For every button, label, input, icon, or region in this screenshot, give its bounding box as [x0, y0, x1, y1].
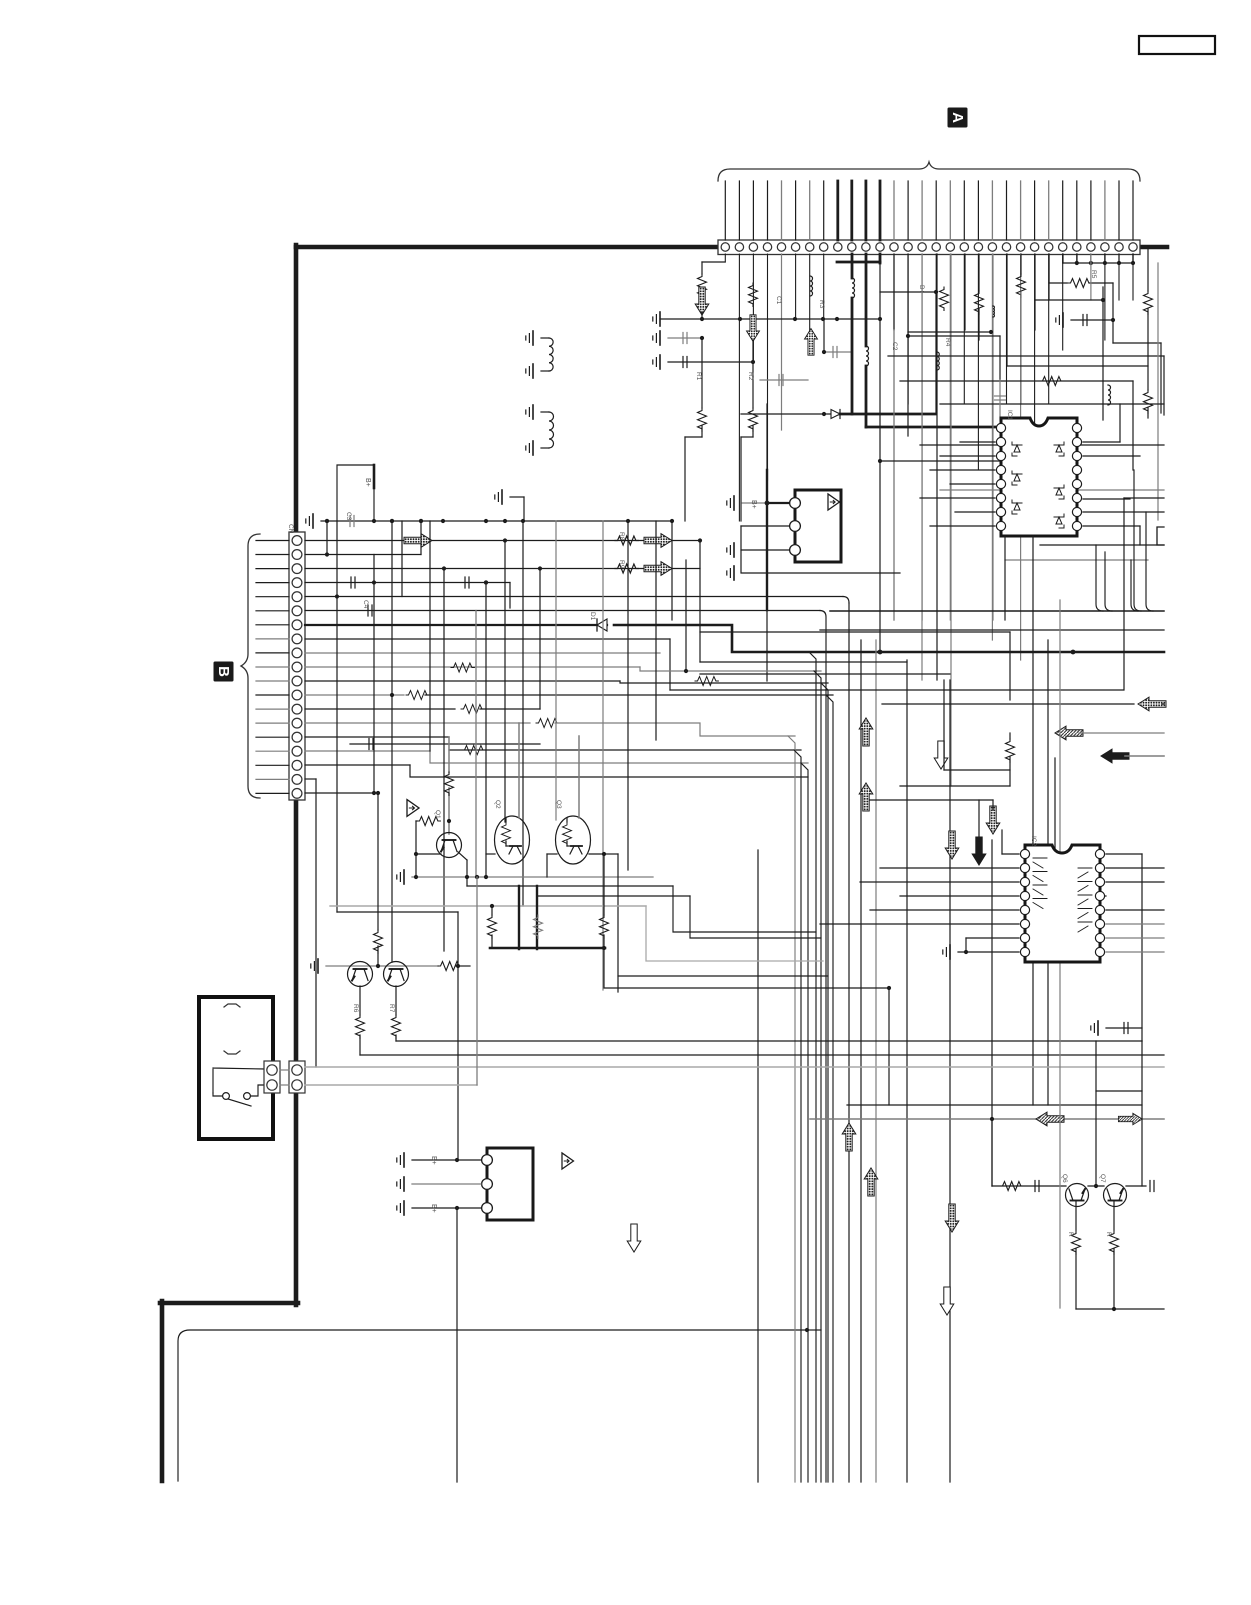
wire B4 cap row: [305, 582, 510, 584]
U4 pin2: [482, 1179, 493, 1190]
arrow feed a3: [747, 315, 760, 342]
wire U2 p7: [966, 937, 1019, 939]
wire CN-A pin 8 top: [823, 181, 825, 240]
wire U1 r2: [1083, 455, 1140, 457]
svg-text:Q1: Q1: [434, 810, 441, 819]
connector CN-B pin 9: [292, 648, 302, 658]
resistor R-tie: [1068, 279, 1091, 288]
wire CN-A pin 16 top: [935, 181, 937, 240]
U3 pin 3: [790, 545, 801, 556]
switch SW1 wire: [213, 1068, 266, 1093]
wire x1096: [1096, 545, 1103, 611]
transistor Q1: [437, 833, 462, 858]
deck arc bottom: [224, 1051, 240, 1054]
resistor R-u2a: [1006, 739, 1015, 762]
arrow B1a: [404, 534, 432, 548]
junction: [441, 519, 445, 523]
bus y445: [920, 444, 1164, 446]
ground G-tie: [1062, 313, 1064, 327]
wire B19 row: [305, 792, 374, 794]
wire CN-A pin 24 column: [1048, 254, 1050, 404]
wire q1 base: [416, 853, 441, 855]
wire CN-B pin 14 stub: [256, 722, 289, 724]
junction: [419, 519, 423, 523]
U1 left pin 3: [996, 451, 1005, 460]
wire col 672: [671, 521, 673, 620]
wire CN-A pin 22 top: [1020, 181, 1022, 240]
deck arc top: [224, 1004, 240, 1007]
wire q3 base stub: [547, 853, 557, 855]
junction: [698, 538, 702, 542]
U2 coil symbol R2: [1078, 882, 1092, 892]
connector CN-B pin 3: [292, 564, 302, 574]
wire col 951: [950, 254, 952, 786]
resistor R-t3: [1110, 1231, 1119, 1254]
U2 right pin 15: [1095, 863, 1104, 872]
U2 coil symbol L2: [1033, 872, 1047, 882]
wire col 540: [539, 569, 541, 710]
IC U2 body: [1025, 845, 1100, 962]
wire U2 p3: [860, 881, 1019, 883]
wire B5 corner: [843, 597, 849, 604]
transistor Q6: [1066, 1184, 1089, 1207]
wire x880 thin: [879, 263, 881, 652]
wire CN-A pin 27 drop: [1090, 254, 1092, 263]
svg-text:B+: B+: [430, 1204, 437, 1213]
wire CN-A pin 18 column: [963, 254, 965, 404]
connector CN-B pin 11: [292, 676, 302, 686]
wire CN-A pin 2 top: [738, 181, 740, 240]
wire CN-A pin 28 column: [1104, 254, 1106, 340]
wire x876: [875, 640, 877, 1482]
transistor Q5: [384, 962, 409, 987]
resistor R-B14: [461, 705, 484, 714]
svg-text:B: B: [215, 666, 232, 677]
diode D2: [831, 410, 840, 419]
U1 internal diode 5: [1056, 488, 1062, 495]
arrow right y1119: [1118, 1113, 1142, 1125]
wire CN-A pin 29 drop: [1118, 254, 1120, 263]
U1 left pin 7: [996, 507, 1005, 516]
U2 left pin 1: [1020, 849, 1029, 858]
wire CN-B pin 12 stub: [256, 694, 289, 696]
wire CN-A pin 17 column: [949, 254, 951, 620]
thick row y414: [838, 413, 936, 416]
junction: [990, 1117, 994, 1121]
arrow left 1: [1138, 697, 1166, 711]
arrow left y1119: [1036, 1112, 1064, 1126]
wire col 979: [978, 254, 980, 291]
U1 left pin 1: [996, 423, 1005, 432]
svg-text:IC2: IC2: [1030, 836, 1037, 847]
wire B18 down: [305, 778, 316, 780]
bus y886: [467, 885, 673, 887]
wire U1 pin2: [960, 441, 995, 443]
svg-text:R8: R8: [618, 532, 625, 541]
wire B10 row: [305, 666, 640, 668]
thick diode bus: [614, 625, 1164, 652]
connector blk2: [289, 1061, 305, 1093]
svg-text:C3: C3: [345, 512, 352, 521]
U2 left pin 2: [1020, 863, 1029, 872]
junction: [821, 317, 825, 321]
wire q2 base stub: [486, 853, 495, 855]
svg-text:R5: R5: [1090, 270, 1097, 279]
wire B+ loop y292: [880, 291, 936, 293]
U2 right pin 10: [1095, 933, 1104, 942]
bus y332: [908, 331, 991, 333]
connector CN-A pin 30: [1129, 243, 1137, 251]
wire CN-A pin 6 column: [795, 254, 797, 319]
wire x457 lower: [456, 1208, 458, 1482]
resistor R-x378: [374, 930, 383, 953]
svg-text:B+: B+: [364, 478, 371, 487]
svg-text:Q2: Q2: [494, 800, 501, 809]
wire q5 low: [395, 1035, 397, 1041]
connector CN-B pin 2: [292, 550, 302, 560]
wire CN-A pin 22 column: [1020, 254, 1022, 660]
wire a1: [701, 312, 703, 319]
wire CN-A pin 28 top: [1104, 181, 1106, 240]
wire CN-A pin 19 column: [977, 254, 979, 470]
resistor R-q1b: [445, 772, 454, 795]
inductor L-col993: [993, 306, 994, 317]
arrow B3b: [644, 562, 672, 576]
connector CN-B pin 7: [292, 620, 302, 630]
wire x686: [685, 560, 687, 671]
wire x950: [949, 680, 951, 1482]
connector CN-A pin 26: [1073, 243, 1081, 251]
ground G-u4c: [403, 1201, 405, 1215]
wire U2 r p14: [1106, 881, 1164, 883]
wire CN-B pin 10 stub: [256, 666, 289, 668]
arrow down 6: [940, 1287, 954, 1315]
wire CN-A pin 25 column: [1062, 254, 1064, 350]
wire col 1007: [1006, 254, 1008, 366]
U1 left pin 8: [996, 521, 1005, 530]
wire col 402: [401, 521, 403, 597]
wire CN-A pin 7 column: [809, 254, 811, 352]
wire U1 r1: [1083, 441, 1120, 443]
svg-text:Q6: Q6: [1061, 1174, 1068, 1183]
wire x1033: [1032, 536, 1034, 1105]
fan L y932: [673, 886, 816, 932]
wire CN-A pin 9 top: [836, 181, 839, 240]
wire x1123: [1123, 498, 1125, 690]
wire col 1105: [1104, 254, 1106, 263]
wire U1 pin4: [930, 469, 995, 471]
connector CN-B pin 16: [292, 746, 302, 756]
resistor R-b3: [1017, 274, 1026, 297]
connector CN-B body: [289, 532, 305, 800]
connector CN-A pin 18: [960, 243, 968, 251]
resistor R-b1: [940, 287, 949, 310]
wire CN-B pin 9 stub: [256, 652, 289, 654]
wire CN-B pin 3 stub: [256, 568, 289, 570]
row y912: [337, 911, 458, 913]
wire x936: [935, 292, 937, 413]
wire x1005: [1004, 536, 1006, 620]
wire tie feed2: [1089, 282, 1113, 284]
switch SW1 left lead: [213, 1093, 222, 1096]
connector CN-A pin 25: [1059, 243, 1067, 251]
wire CN-A pin 2 column: [738, 254, 740, 521]
ground G-u3b: [733, 543, 735, 557]
cap c-b2: [999, 380, 1001, 420]
wire q5 drop: [395, 986, 397, 1015]
wire u3 pin1 feed: [767, 502, 789, 504]
junction: [878, 317, 882, 321]
ground row y338: [659, 331, 661, 345]
ground G-502: [501, 490, 503, 504]
wire B5 row: [305, 596, 843, 598]
bus y690: [670, 689, 1123, 691]
wire B15 row: [305, 722, 530, 724]
wire under u3: [740, 550, 742, 573]
wire CN-B pin 1 stub: [256, 540, 289, 542]
wire q7 low: [1113, 1249, 1115, 1309]
connector/box U4: [487, 1148, 533, 1220]
wire col 965: [964, 254, 966, 330]
wire CN-A pin 4 top: [767, 181, 769, 240]
U2 right pin 14: [1095, 877, 1104, 886]
ground G-br: [1097, 1021, 1099, 1035]
wire CN-B pin 16 stub: [256, 750, 289, 752]
U2 coil symbol R3: [1078, 895, 1092, 905]
connector CN-A pin 4: [763, 243, 771, 251]
wire a3: [752, 340, 754, 408]
wire B6 corner: [820, 611, 826, 1483]
transistor Q2 (digital): [495, 816, 530, 864]
U2 right pin 9: [1095, 947, 1104, 956]
wire q2 top feed: [518, 723, 520, 818]
wire CN-A pin 25 drop: [1062, 254, 1064, 263]
wire x1048: [1047, 640, 1049, 1105]
wire CN-A pin 30 top: [1132, 181, 1134, 240]
cap row521: [349, 516, 351, 527]
U1 internal diode 4: [1056, 445, 1062, 452]
wire x421 stub: [420, 521, 422, 555]
connector CN-B pin 19: [292, 789, 302, 799]
wire CN-A pin 20 top: [991, 181, 993, 240]
connector CN-B pin 6: [292, 606, 302, 616]
fan L y961: [646, 906, 823, 961]
resistor R-b5: [1144, 291, 1153, 314]
connector CN-B pin 12: [292, 690, 302, 700]
connector CN-A pin 23: [1030, 243, 1038, 251]
resistor R-B1: [615, 536, 638, 545]
wire U1 r3: [1083, 498, 1130, 500]
ground G-u4b: [403, 1177, 405, 1191]
junction: [372, 519, 376, 523]
ground row y362: [659, 355, 661, 369]
wire y756: [1125, 755, 1164, 757]
wire U2 r p12: [1106, 909, 1164, 911]
resistor R-t1: [1000, 1182, 1023, 1191]
U3 pin 2: [790, 521, 801, 532]
wire CN-A pin 18 top: [963, 181, 965, 240]
connector CN-A pin 21: [1002, 243, 1010, 251]
wire B6 row: [305, 610, 820, 612]
wire y800: [870, 799, 993, 801]
wire U2 r p9: [1106, 951, 1164, 953]
wire CN-A pin 27 top: [1090, 181, 1092, 240]
wire loop B+: [337, 465, 374, 521]
wire B8 row: [305, 638, 670, 640]
wire y336: [908, 335, 1000, 337]
wire col 628: [627, 521, 629, 870]
U2 coil symbol L1: [1033, 858, 1047, 868]
resistor R-B3: [615, 564, 638, 573]
wire CN-A pin 3 top: [752, 181, 754, 240]
wire x1142: [1141, 1041, 1143, 1186]
U2 left pin 4: [1020, 891, 1029, 900]
wire U1 r4: [1083, 511, 1164, 513]
transistor Q4: [348, 962, 373, 987]
wire U2 r p11: [1106, 923, 1164, 925]
fan L y988: [604, 948, 889, 988]
wire q6 drop: [1075, 1201, 1077, 1230]
wire B12 row: [305, 680, 620, 682]
inner thin border: [178, 1330, 807, 1481]
wire U2 p5: [870, 909, 1019, 911]
U2 left pin 8: [1020, 947, 1029, 956]
arrow up 4: [842, 1123, 856, 1151]
connector CN-A pin 14: [904, 243, 912, 251]
wire x1103: [1102, 287, 1104, 420]
switch SW1 contact a: [223, 1093, 230, 1100]
junction: [626, 519, 630, 523]
connector CN-A pin 3: [749, 243, 757, 251]
wire col 922: [921, 254, 923, 680]
U1 internal diode 2: [1014, 474, 1020, 481]
bus y630: [820, 629, 1164, 631]
U2 right pin 12: [1095, 905, 1104, 914]
inductor L-T1: [852, 278, 855, 298]
resistor R-t2: [1072, 1231, 1081, 1254]
junction: [325, 519, 329, 523]
wire B18 row: [305, 764, 410, 766]
wire col 894: [893, 254, 895, 330]
U1 right pin 16: [1072, 423, 1081, 432]
connector CN-A pin 22: [1016, 243, 1024, 251]
wire U2 p1: [1002, 853, 1019, 855]
wire x1146: [1146, 512, 1153, 611]
page border left: [294, 245, 299, 1305]
wire CN-B pin 5 stub: [256, 596, 289, 598]
wire U2 r p10: [1106, 937, 1164, 939]
wire CN-B pin 15 stub: [256, 736, 289, 738]
wire x979 feed: [978, 800, 980, 841]
connector CN-A pin 7: [806, 243, 814, 251]
resistor R-b6: [1144, 390, 1153, 413]
bus y611: [830, 610, 1164, 612]
connector CN-B pin 13: [292, 704, 302, 714]
ground G-L2a: [532, 405, 534, 419]
connector CN-B pin 8: [292, 634, 302, 644]
wire CN-B pin 13 stub: [256, 708, 289, 710]
junction: [738, 317, 742, 321]
junction: [1111, 318, 1115, 322]
wire x1134: [1134, 470, 1141, 611]
U1 left pin 6: [996, 493, 1005, 502]
arrow B+ feed a1: [695, 287, 709, 315]
wire right edge L1: [1113, 342, 1161, 344]
arrow up 2: [859, 783, 873, 811]
wire x1096: [1095, 1041, 1097, 1186]
coil L-b2: [1108, 385, 1111, 405]
wire col 908: [907, 254, 909, 436]
wire x457 upper: [457, 912, 459, 1160]
wire q6 low: [1075, 1249, 1077, 1309]
U1 right pin 11: [1072, 493, 1081, 502]
wire x1105: [1105, 552, 1112, 611]
wire col 993: [992, 254, 994, 306]
wire col 656: [655, 521, 657, 740]
connector CN-A pin 28: [1101, 243, 1109, 251]
resistor R-m3: [600, 915, 609, 938]
connector blk1: [264, 1061, 280, 1093]
resistor R-a3: [749, 283, 758, 306]
wire CN-A pin 13 top: [893, 181, 895, 240]
transistor Q7: [1104, 1184, 1127, 1207]
wire B15 cont: [555, 723, 795, 736]
wire pin1 jog: [702, 261, 725, 263]
U1 right pin 13: [1072, 465, 1081, 474]
resistor R-b2: [975, 291, 984, 314]
wire y704: [1162, 703, 1164, 705]
thick net T1 tie: [837, 261, 880, 264]
arrow down 3: [945, 1204, 959, 1232]
resistor R-B13: [406, 691, 429, 700]
svg-text:R4: R4: [944, 338, 951, 347]
thick net T3: [879, 254, 882, 263]
U2 left pin 6: [1020, 919, 1029, 928]
junction: [878, 650, 883, 655]
svg-text:R: R: [1105, 1232, 1112, 1237]
wire CN-A pin 11 top: [865, 181, 868, 240]
wire CN-A pin 21 column: [1006, 254, 1008, 404]
wire CN-B pin 6 stub: [256, 610, 289, 612]
U1 right pin 14: [1072, 451, 1081, 460]
wire B1 row: [305, 540, 700, 542]
wire CN-A pin 30 drop: [1132, 254, 1134, 263]
arrow feed a5: [805, 329, 818, 356]
resistor R-a2: [698, 408, 707, 431]
wire B7 row: [305, 624, 607, 626]
wire CN-A pin 20 column: [991, 254, 993, 640]
connector CN-A pin 29: [1115, 243, 1123, 251]
svg-text:R2: R2: [747, 372, 754, 381]
wire CN-B pin 4 stub: [256, 582, 289, 584]
resistor R-q5b: [392, 1015, 401, 1038]
ground G-u3a: [733, 496, 735, 510]
wire bundle: [826, 695, 833, 1482]
wire U1 pin7: [955, 511, 995, 513]
ground G-u3c: [733, 566, 735, 580]
junction: [503, 519, 507, 523]
U2 coil symbol R4: [1078, 909, 1092, 919]
wire CN-B pin 11 stub: [256, 680, 289, 682]
switch SW1 contact b: [244, 1093, 251, 1100]
wire U2 p4: [900, 895, 1019, 897]
wire col 486: [485, 583, 487, 877]
wire CN-A pin 1 column: [724, 254, 726, 262]
wire tie pins 25-30: [1062, 254, 1064, 263]
wire col 476: [475, 611, 477, 878]
bus y490: [940, 489, 1164, 491]
resistor R-a4: [749, 408, 758, 431]
